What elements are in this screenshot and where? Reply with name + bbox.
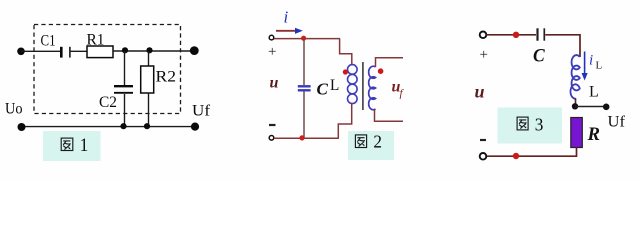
wire jog to primary	[340, 39, 352, 65]
svg-text:2: 2	[373, 132, 382, 152]
resistor R (purple)	[571, 118, 600, 148]
resistor R2	[141, 66, 176, 93]
label -	[269, 124, 276, 126]
node junction output	[572, 103, 578, 109]
wire capacitor branch upper	[303, 39, 305, 85]
node junction C2 top	[122, 47, 128, 53]
svg-text:u: u	[270, 74, 279, 91]
node Uo top terminal	[17, 48, 25, 56]
wire	[71, 50, 87, 52]
node junction C2 bottom	[120, 123, 126, 129]
svg-text:C: C	[317, 80, 329, 99]
wire capacitor branch lower	[303, 92, 305, 139]
node input top terminal	[480, 32, 487, 39]
node input top terminal	[269, 35, 274, 40]
caption 图1	[43, 131, 101, 161]
polarity dot secondary (red)	[378, 68, 384, 74]
wire R2 branch lower	[148, 93, 150, 127]
wire top right	[545, 35, 580, 57]
capacitor C2	[99, 86, 133, 111]
current arrow i	[276, 8, 303, 34]
svg-text:L: L	[596, 60, 603, 72]
wire	[113, 50, 194, 52]
wire R2 branch upper	[148, 51, 150, 66]
current arrow iL	[582, 52, 603, 81]
node Uf top terminal	[190, 46, 199, 55]
svg-text:1: 1	[80, 136, 89, 156]
capacitor C1	[41, 33, 70, 58]
wire C2 branch lower	[124, 94, 126, 127]
node junction R2 bottom	[144, 123, 150, 129]
label uf	[392, 79, 405, 100]
wire top rail	[487, 34, 537, 36]
svg-text:i: i	[284, 8, 289, 27]
inductor L	[570, 55, 579, 99]
svg-text:+: +	[480, 47, 488, 63]
label -	[480, 139, 486, 141]
node junction R2 top	[146, 47, 152, 53]
svg-text:3: 3	[535, 115, 544, 135]
svg-text:R: R	[587, 124, 600, 145]
svg-text:+: +	[268, 44, 276, 60]
wire bottom rail	[21, 126, 195, 128]
svg-text:Uf: Uf	[192, 103, 211, 120]
wire bottom rail	[487, 148, 577, 157]
node junction (red) top	[513, 32, 519, 38]
svg-text:C: C	[533, 46, 545, 67]
svg-text:f: f	[400, 88, 405, 100]
node input bottom terminal	[269, 136, 274, 141]
dashed feedback-network box	[34, 25, 181, 114]
wire inductor to node	[575, 99, 577, 107]
svg-text:Uo: Uo	[5, 101, 23, 118]
wire top rail	[274, 38, 340, 40]
svg-text:C1: C1	[41, 33, 56, 50]
svg-text:R2: R2	[156, 69, 177, 86]
node junction capacitor top (red)	[301, 36, 306, 41]
svg-text:Uf: Uf	[608, 114, 626, 131]
polarity dot primary (red)	[343, 69, 348, 74]
transformer secondary winding	[369, 66, 376, 109]
transformer primary winding	[348, 65, 358, 104]
node input bottom terminal	[480, 153, 487, 160]
node Uo bottom terminal	[18, 123, 26, 131]
caption 图2	[348, 131, 394, 160]
node Uf terminal	[603, 104, 610, 111]
capacitor C	[533, 28, 545, 66]
wire jog to primary bottom	[338, 104, 351, 139]
svg-text:L: L	[589, 84, 599, 101]
svg-text:u: u	[475, 82, 485, 102]
node Uf bottom terminal	[191, 123, 199, 131]
wire C2 branch upper	[124, 51, 126, 85]
transformer core	[362, 62, 364, 110]
svg-text:R1: R1	[87, 32, 105, 49]
wire secondary top lead	[376, 58, 404, 67]
svg-text:i: i	[589, 53, 593, 69]
capacitor C	[298, 86, 311, 90]
node junction capacitor bottom (red)	[299, 135, 304, 140]
svg-text:C2: C2	[99, 94, 117, 111]
svg-text:L: L	[330, 77, 339, 94]
resistor R1	[87, 32, 114, 58]
wire bottom rail	[274, 137, 339, 139]
wire secondary bottom lead	[375, 109, 404, 121]
wire	[21, 50, 60, 52]
node junction (red) bottom	[513, 153, 519, 159]
wire to Uf terminal	[575, 106, 604, 108]
caption 图3	[498, 108, 563, 144]
